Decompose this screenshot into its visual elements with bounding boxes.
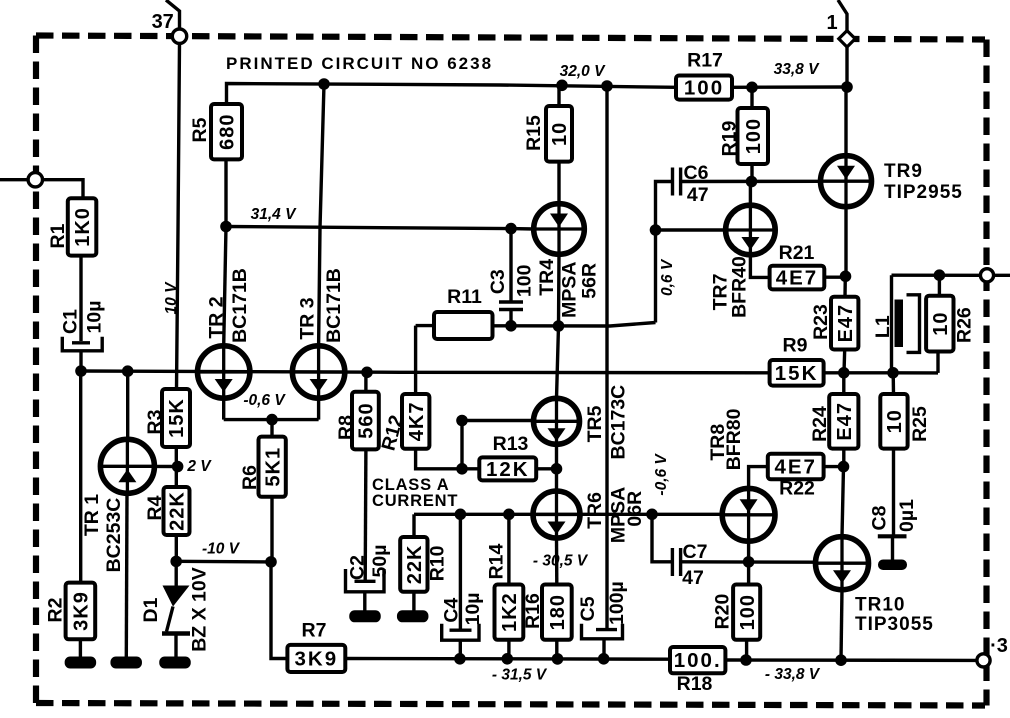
- svg-text:5K1: 5K1: [262, 447, 284, 487]
- svg-text:10: 10: [930, 311, 952, 335]
- svg-text:BC171B: BC171B: [323, 268, 345, 343]
- svg-text:560: 560: [356, 402, 378, 438]
- svg-text:- 31,5 V: - 31,5 V: [492, 667, 548, 684]
- svg-text:R22: R22: [779, 478, 815, 500]
- svg-text:MPSA: MPSA: [559, 262, 581, 318]
- svg-text:R15: R15: [523, 115, 545, 151]
- svg-text:32,0 V: 32,0 V: [560, 63, 606, 80]
- svg-text:-10 V: -10 V: [202, 541, 241, 558]
- svg-text:R6: R6: [239, 465, 261, 490]
- svg-text:R1: R1: [47, 223, 69, 248]
- svg-text:100: 100: [684, 77, 724, 100]
- svg-text:BC171B: BC171B: [229, 268, 251, 343]
- svg-text:C1: C1: [60, 309, 82, 334]
- svg-text:R21: R21: [779, 242, 815, 264]
- svg-text:-0,6 V: -0,6 V: [653, 453, 670, 496]
- svg-text:R2: R2: [45, 597, 67, 622]
- svg-text:C5: C5: [577, 596, 599, 621]
- svg-text:TR 1: TR 1: [81, 494, 103, 536]
- svg-text:50µ: 50µ: [369, 545, 391, 578]
- svg-text:31,4 V: 31,4 V: [251, 206, 297, 223]
- svg-text:47: 47: [687, 184, 709, 206]
- svg-text:TR6: TR6: [584, 492, 606, 529]
- svg-text:R19: R19: [719, 120, 741, 156]
- svg-text:R7: R7: [302, 620, 327, 642]
- svg-text:C8: C8: [869, 505, 891, 530]
- svg-text:R11: R11: [447, 286, 482, 308]
- svg-text:R13: R13: [493, 433, 529, 455]
- svg-text:R14: R14: [486, 543, 508, 579]
- svg-text:1: 1: [826, 12, 837, 34]
- svg-text:BFR40: BFR40: [729, 256, 751, 318]
- svg-text:R20: R20: [712, 593, 734, 629]
- svg-text:C7: C7: [683, 541, 708, 563]
- svg-text:- 30,5 V: - 30,5 V: [533, 553, 589, 570]
- svg-text:3K9: 3K9: [295, 647, 339, 670]
- svg-text:R25: R25: [909, 406, 931, 442]
- svg-text:47: 47: [682, 567, 704, 589]
- svg-text:4E7: 4E7: [776, 267, 818, 290]
- svg-text:100: 100: [513, 264, 535, 297]
- svg-text:100: 100: [743, 118, 765, 154]
- svg-text:E47: E47: [835, 304, 857, 343]
- svg-text:22K: 22K: [404, 544, 426, 584]
- svg-text:10: 10: [884, 409, 906, 433]
- svg-text:100µ: 100µ: [606, 581, 628, 625]
- svg-text:10µ: 10µ: [462, 592, 484, 625]
- svg-text:TR10: TR10: [855, 595, 905, 616]
- svg-text:2 V: 2 V: [186, 458, 212, 475]
- svg-text:3K9: 3K9: [71, 591, 93, 631]
- svg-text:TR 3: TR 3: [297, 297, 319, 339]
- svg-text:4K7: 4K7: [406, 401, 428, 441]
- svg-text:TR 2: TR 2: [206, 296, 228, 338]
- svg-text:TR4: TR4: [536, 259, 558, 296]
- svg-text:R26: R26: [954, 307, 976, 343]
- svg-text:15K: 15K: [166, 398, 188, 438]
- svg-text:R17: R17: [687, 50, 723, 72]
- svg-text:10: 10: [549, 122, 571, 146]
- svg-text:R3: R3: [144, 409, 166, 434]
- svg-text:BC253C: BC253C: [103, 498, 125, 573]
- svg-text:R24: R24: [809, 406, 831, 442]
- svg-text:R16: R16: [522, 593, 544, 629]
- svg-text:R9: R9: [783, 335, 808, 357]
- svg-text:TIP3055: TIP3055: [855, 614, 934, 635]
- svg-text:R8: R8: [335, 415, 357, 440]
- svg-text:15K: 15K: [775, 362, 819, 385]
- svg-text:CURRENT: CURRENT: [372, 492, 458, 510]
- svg-text:TIP2955: TIP2955: [884, 182, 963, 203]
- svg-text:R18: R18: [677, 673, 713, 695]
- svg-text:R10: R10: [427, 545, 449, 581]
- svg-text:-0,6 V: -0,6 V: [243, 392, 286, 409]
- svg-text:C3: C3: [487, 269, 509, 294]
- svg-text:0µ1: 0µ1: [896, 499, 918, 532]
- svg-text:TR9: TR9: [884, 161, 923, 182]
- svg-text:100: 100: [737, 594, 759, 630]
- svg-text:C4: C4: [441, 598, 463, 623]
- svg-text:E47: E47: [834, 402, 856, 441]
- svg-text:680: 680: [217, 114, 239, 150]
- svg-text:C6: C6: [684, 162, 709, 184]
- svg-text:0,6 V: 0,6 V: [659, 258, 676, 296]
- svg-text:180: 180: [547, 594, 569, 630]
- svg-text:R23: R23: [810, 304, 832, 340]
- svg-text:PRINTED CIRCUIT NO 6238: PRINTED CIRCUIT NO 6238: [226, 54, 493, 73]
- svg-text:1K2: 1K2: [499, 592, 521, 632]
- svg-text:1K0: 1K0: [72, 207, 94, 247]
- svg-text:06R: 06R: [624, 491, 646, 527]
- svg-text:12K: 12K: [486, 458, 530, 481]
- svg-text:BC173C: BC173C: [607, 385, 629, 460]
- svg-text:L1: L1: [872, 315, 894, 338]
- svg-text:C2: C2: [347, 555, 369, 580]
- svg-text:R5: R5: [189, 117, 211, 142]
- svg-text:BZ X 10V: BZ X 10V: [189, 567, 211, 652]
- svg-text:4E7: 4E7: [774, 456, 816, 479]
- svg-text:BFR80: BFR80: [723, 408, 745, 470]
- svg-text:56R: 56R: [579, 263, 601, 299]
- svg-text:D1: D1: [140, 597, 162, 622]
- svg-text:10 V: 10 V: [163, 281, 180, 315]
- svg-text:100.: 100.: [674, 649, 722, 672]
- svg-text:TR5: TR5: [584, 405, 606, 442]
- svg-text:37: 37: [152, 11, 174, 33]
- svg-text:- 33,8 V: - 33,8 V: [765, 666, 821, 683]
- svg-text:22K: 22K: [167, 491, 189, 531]
- svg-text:10µ: 10µ: [84, 301, 106, 334]
- svg-text:33,8 V: 33,8 V: [774, 61, 820, 78]
- svg-text:R4: R4: [144, 495, 166, 520]
- svg-text:·3: ·3: [990, 635, 1008, 657]
